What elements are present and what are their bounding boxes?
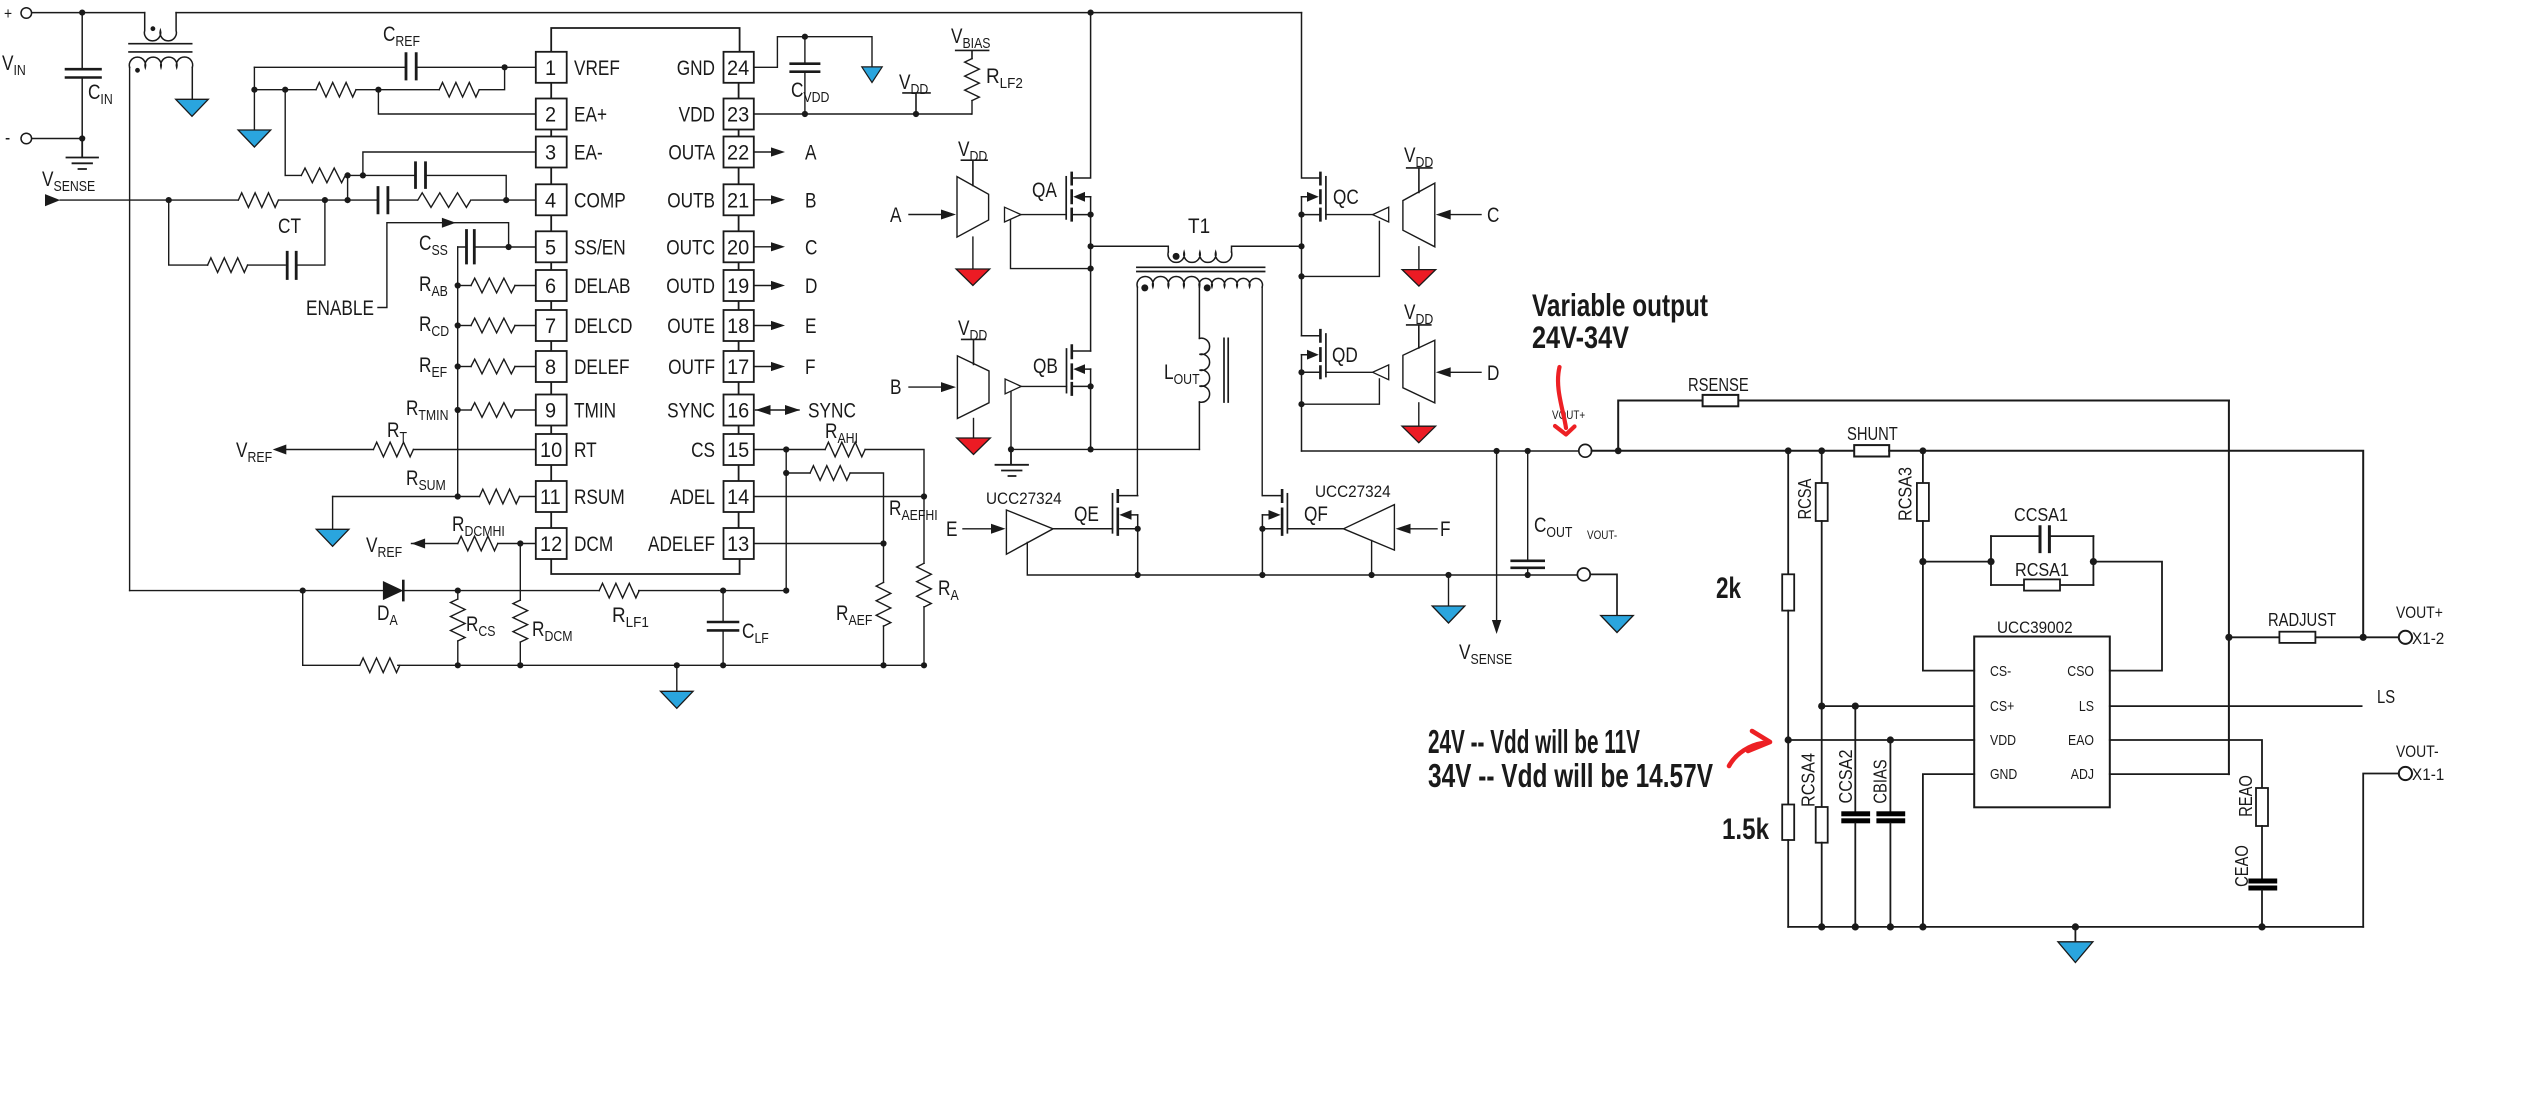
wire D input arrow xyxy=(1451,371,1481,373)
svg-text:VDD: VDD xyxy=(679,104,715,127)
node rail gnd stem right xyxy=(1445,572,1451,578)
wire driver A return xyxy=(1011,220,1091,269)
node CCSA1 right xyxy=(2090,558,2097,565)
capacitor CCSA2 xyxy=(1854,706,1856,811)
node output rail COUT xyxy=(1525,448,1531,454)
ground red driver C xyxy=(1418,247,1420,270)
wire CS filter line xyxy=(130,590,787,592)
node rail RDCM xyxy=(517,662,523,668)
wire VOUT- return xyxy=(2363,774,2399,927)
wire ENABLE net xyxy=(378,223,509,308)
phase dot choke bottom xyxy=(135,68,140,73)
wire driver C return xyxy=(1302,222,1380,277)
transformer T1 secondary xyxy=(1137,277,1262,287)
node rail CBIAS xyxy=(1887,923,1894,930)
svg-text:E: E xyxy=(946,518,958,541)
node driver C return xyxy=(1298,273,1304,279)
svg-text:ADJ: ADJ xyxy=(2071,766,2094,783)
svg-text:ENABLE: ENABLE xyxy=(306,297,374,320)
wire B input arrow xyxy=(909,386,941,388)
svg-text:OUTE: OUTE xyxy=(667,315,715,338)
svg-text:QD: QD xyxy=(1332,344,1358,367)
node comp line CT left xyxy=(166,197,172,203)
pin 1 VREF xyxy=(536,52,567,83)
node pin1 branch xyxy=(502,64,508,70)
wire driver D return xyxy=(1302,379,1380,404)
wire bottom ground rail left xyxy=(303,591,924,666)
wire ADELEF pin13 xyxy=(754,543,884,545)
ground blue EA+ divider xyxy=(238,130,271,147)
VSENSE input arrow xyxy=(45,194,60,206)
transformer input choke winding bottom xyxy=(129,57,192,99)
svg-text:QA: QA xyxy=(1032,179,1057,202)
svg-text:17: 17 xyxy=(727,356,749,379)
capacitor CREF xyxy=(254,54,504,79)
node rail ground stem xyxy=(2072,923,2079,930)
svg-text:6: 6 xyxy=(545,275,556,298)
svg-text:RSUM: RSUM xyxy=(574,486,625,509)
resistor EA+ divider left xyxy=(254,89,316,91)
node comp line CT right xyxy=(322,197,328,203)
transistor QB xyxy=(1067,346,1091,450)
node rail RCSA4 xyxy=(1818,923,1825,930)
wire driver E return xyxy=(1027,543,1578,576)
node driver F rail xyxy=(1369,572,1375,578)
node RCSA3 CCSA1 tap xyxy=(1919,558,1926,565)
pin 8 DELEF xyxy=(536,351,567,382)
wire OUTC arrow xyxy=(754,246,771,248)
wire minus terminal xyxy=(32,138,82,140)
resistor RDCM xyxy=(519,544,521,601)
wire comp junction vertical xyxy=(347,175,349,200)
svg-text:SS/EN: SS/EN xyxy=(574,236,626,259)
ground red driver D xyxy=(1418,403,1420,426)
node CLF top xyxy=(720,588,726,594)
svg-text:10: 10 xyxy=(540,439,562,462)
svg-text:OUTF: OUTF xyxy=(668,356,715,379)
svg-text:B: B xyxy=(805,189,817,212)
pin 5 SS/EN xyxy=(536,231,567,262)
pin 4 COMP xyxy=(536,184,567,215)
svg-text:RADJUST: RADJUST xyxy=(2268,610,2336,630)
ground blue RSUM xyxy=(316,529,349,546)
resistor EA- input xyxy=(285,174,301,176)
resistor RLF2 xyxy=(965,59,980,101)
svg-text:OUTC: OUTC xyxy=(666,236,715,259)
node output rail VSENSE xyxy=(1494,448,1500,454)
wire pin23 VDD rail xyxy=(754,113,972,115)
svg-text:20: 20 xyxy=(727,236,749,259)
wire CREF left leg down xyxy=(253,67,255,89)
svg-text:CT: CT xyxy=(278,215,301,238)
wire OUTF arrow xyxy=(754,366,771,368)
node rail COUT bottom xyxy=(1525,572,1531,578)
svg-text:SYNC: SYNC xyxy=(808,400,856,423)
node CS pin filter xyxy=(783,446,789,452)
capacitor CCSA1 parallel loop xyxy=(1991,527,2093,585)
svg-text:VDD: VDD xyxy=(1990,732,2016,749)
wire A input arrow xyxy=(909,214,941,216)
terminal VOUT+ connector xyxy=(1579,444,1592,457)
driver A UCC27324 half xyxy=(957,177,989,238)
node comp line junction xyxy=(345,197,351,203)
svg-text:SHUNT: SHUNT xyxy=(1847,424,1898,444)
wire CS+ line xyxy=(1822,705,1975,707)
node comp pin node xyxy=(503,197,509,203)
svg-text:CSO: CSO xyxy=(2067,663,2094,680)
node VDD junction xyxy=(1785,736,1792,743)
VSENSE line to COMP xyxy=(60,199,536,201)
resistor 1.5k xyxy=(1787,740,1789,805)
resistor RDCMHI xyxy=(412,543,458,545)
node driver A return xyxy=(1088,266,1094,272)
svg-text:CS: CS xyxy=(691,439,715,462)
terminal VOUT+ X1-2 xyxy=(2399,631,2412,644)
node EA- comp junction xyxy=(345,172,351,178)
svg-text:24V-34V: 24V-34V xyxy=(1532,319,1629,355)
ground red driver B xyxy=(973,419,975,439)
node CS filter corner xyxy=(783,588,789,594)
node EA+ divider left xyxy=(251,87,257,93)
svg-text:UCC27324: UCC27324 xyxy=(1315,482,1391,501)
node VOUT+ rail drop xyxy=(2360,634,2367,641)
wire delay resistor rail xyxy=(457,247,459,497)
svg-text:COMP: COMP xyxy=(574,189,626,212)
node QC source xyxy=(1298,212,1304,218)
pin 3 EA- xyxy=(536,137,567,168)
svg-text:16: 16 xyxy=(727,400,749,423)
wire CS- line xyxy=(1923,670,1974,672)
pin 19 OUTD xyxy=(724,270,754,301)
svg-text:D: D xyxy=(805,275,817,298)
node QB source xyxy=(1088,383,1094,389)
wire OUTE arrow xyxy=(754,325,771,327)
driver D UCC27324 half xyxy=(1403,340,1435,403)
wire E input arrow xyxy=(963,528,991,530)
pin 16 SYNC xyxy=(724,395,754,426)
resistor RCSA3 xyxy=(1922,451,1924,483)
svg-text:2: 2 xyxy=(545,104,556,127)
pin 24 GND xyxy=(724,52,754,83)
node ADEL RA xyxy=(921,493,927,499)
node RAEFHI left xyxy=(783,470,789,476)
svg-text:1: 1 xyxy=(545,57,556,80)
resistor VSENSE series xyxy=(238,193,278,207)
wire secondary left leg xyxy=(1136,287,1138,496)
pin 18 OUTE xyxy=(724,310,754,341)
node RADJUST left xyxy=(2225,634,2232,641)
svg-text:VOUT-: VOUT- xyxy=(2396,742,2439,761)
resistor RCSA xyxy=(1821,451,1823,483)
node CVDD bottom xyxy=(802,111,808,117)
svg-text:RSENSE: RSENSE xyxy=(1688,375,1749,395)
ground blue bottom rail xyxy=(661,691,694,708)
node rail 2k tap xyxy=(1785,447,1792,454)
wire EA- tap down xyxy=(284,90,286,176)
node rail CCSA2 xyxy=(1852,923,1859,930)
svg-text:RCSA4: RCSA4 xyxy=(1798,753,1818,807)
driver B UCC27324 half xyxy=(957,356,989,419)
wire ADJ riser xyxy=(2228,401,2230,775)
svg-text:Variable output: Variable output xyxy=(1532,287,1708,323)
buffer B output xyxy=(1005,379,1021,394)
svg-text:CS-: CS- xyxy=(1990,663,2011,680)
terminal + (VIN positive input) xyxy=(21,8,32,19)
arrow VREF left pin10 xyxy=(273,445,287,455)
wire pin24 GND to ground xyxy=(754,37,872,68)
wire choke left leg down to CS diode line xyxy=(129,68,131,591)
pin 9 TMIN xyxy=(536,395,567,426)
capacitor CLF xyxy=(708,591,738,666)
terminal VOUT- X1-1 xyxy=(2399,767,2412,780)
svg-text:15: 15 xyxy=(727,439,749,462)
svg-text:2k: 2k xyxy=(1716,572,1741,605)
node EA- tap xyxy=(282,87,288,93)
node rail RA xyxy=(921,662,927,668)
svg-text:RCSA: RCSA xyxy=(1795,479,1815,520)
svg-text:DELCD: DELCD xyxy=(574,315,632,338)
power symbol VBIAS xyxy=(956,50,989,58)
resistor RA xyxy=(923,497,925,564)
resistor comp series xyxy=(418,193,472,207)
phase dot T1 secondary right xyxy=(1204,284,1211,291)
node EA- pin tap xyxy=(360,172,366,178)
wire ground stem loadshare xyxy=(2074,927,2076,942)
diode DA xyxy=(383,581,403,600)
wire QD leg to output rail xyxy=(1302,450,1497,452)
svg-text:EA-: EA- xyxy=(574,142,603,165)
svg-text:34V -- Vdd will be 14.57V: 34V -- Vdd will be 14.57V xyxy=(1428,757,1713,794)
transistor QD xyxy=(1302,330,1326,451)
transformer input choke winding top xyxy=(144,13,176,41)
svg-text:23: 23 xyxy=(727,104,749,127)
wire CSO link xyxy=(2093,562,2162,671)
svg-text:EA+: EA+ xyxy=(574,104,607,127)
node EAO rail xyxy=(2258,923,2265,930)
svg-text:3: 3 xyxy=(545,142,556,165)
wire rail right of VOUT+ xyxy=(1592,450,1855,452)
wire CCSA1 left link xyxy=(1923,561,1991,563)
node QA source xyxy=(1088,212,1094,218)
svg-text:CCSA2: CCSA2 xyxy=(1836,750,1856,804)
svg-text:24: 24 xyxy=(727,57,750,80)
capacitor COUT xyxy=(1512,451,1544,575)
node QE rail xyxy=(1135,572,1141,578)
svg-text:F: F xyxy=(1440,518,1451,541)
svg-text:24V -- Vdd will be 11V: 24V -- Vdd will be 11V xyxy=(1428,723,1640,760)
svg-text:UCC27324: UCC27324 xyxy=(986,489,1062,508)
wire QB leg to LOUT return xyxy=(1011,448,1199,450)
red arrow to VOUT+ xyxy=(1555,367,1575,435)
svg-text:18: 18 xyxy=(727,315,749,338)
svg-text:LS: LS xyxy=(2377,687,2395,707)
node rail RCSA3 tap xyxy=(1920,447,1927,454)
phase dot choke top xyxy=(151,26,156,31)
svg-text:VREF: VREF xyxy=(574,57,620,80)
resistor RAB xyxy=(455,282,461,288)
svg-text:CEAO: CEAO xyxy=(2232,845,2252,887)
transistor QC xyxy=(1302,13,1326,336)
svg-text:13: 13 xyxy=(727,533,749,556)
resistor ground rail unnamed xyxy=(360,658,400,673)
node CS+ CCSA2 xyxy=(1852,703,1859,710)
transistor QA xyxy=(1066,13,1090,351)
svg-text:D: D xyxy=(1487,362,1499,385)
pin 13 ADELEF xyxy=(724,528,754,559)
ground earth below CIN xyxy=(67,139,99,170)
resistor SHUNT xyxy=(1854,445,1889,456)
capacitor CIN xyxy=(66,13,101,139)
resistor RAHI xyxy=(754,449,825,451)
pin 21 OUTB xyxy=(724,184,754,215)
wire SYNC bidirectional arrow xyxy=(756,409,800,411)
power symbol VDD driver B xyxy=(962,339,985,364)
node VDD CBIAS xyxy=(1887,736,1894,743)
node CS+ RCSA xyxy=(1818,703,1825,710)
wire VDD line xyxy=(1788,739,1974,741)
pin 15 CS xyxy=(724,434,754,465)
wire EA- to pin3 xyxy=(363,152,536,175)
power symbol VDD driver A xyxy=(961,160,987,185)
capacitor CBIAS xyxy=(1889,740,1891,811)
svg-text:QE: QE xyxy=(1074,503,1099,526)
resistor RTMIN xyxy=(455,407,461,413)
pin 17 OUTF xyxy=(724,351,754,382)
wire output rail positive xyxy=(1497,450,1579,452)
capacitor CSS xyxy=(458,231,536,264)
svg-text:OUTA: OUTA xyxy=(668,142,715,165)
terminal VOUT- connector xyxy=(1577,568,1590,581)
svg-text:RCSA3: RCSA3 xyxy=(1895,467,1915,521)
node QE source xyxy=(1135,526,1141,532)
pin 23 VDD xyxy=(724,99,754,130)
wire OUTB arrow xyxy=(754,199,771,201)
node RCS top xyxy=(455,588,461,594)
pin 2 EA+ xyxy=(536,99,567,130)
driver E triangle xyxy=(1006,510,1053,554)
arrow ENABLE direction xyxy=(442,218,456,228)
svg-text:CCSA1: CCSA1 xyxy=(2014,505,2068,525)
ground earth driver B xyxy=(996,449,1029,476)
svg-text:11: 11 xyxy=(540,486,561,509)
svg-text:ADELEF: ADELEF xyxy=(648,533,715,556)
capacitor CEAO xyxy=(2248,879,2277,884)
resistor RCSA1 xyxy=(2024,579,2060,590)
inductor LOUT xyxy=(1199,287,1228,449)
ground blue output rail xyxy=(1432,606,1465,623)
node ADELEF RAEF xyxy=(880,540,886,546)
resistor RCSA4 xyxy=(1821,706,1823,807)
wire EA+ mid to pin2 xyxy=(378,90,535,114)
svg-text:DELEF: DELEF xyxy=(574,356,630,379)
pin 20 OUTC xyxy=(724,231,754,262)
svg-text:TMIN: TMIN xyxy=(574,400,616,423)
power symbol VDD xyxy=(903,93,930,114)
node rail RAEF xyxy=(880,662,886,668)
pin 11 RSUM xyxy=(536,481,567,512)
svg-text:A: A xyxy=(890,204,902,227)
svg-text:-: - xyxy=(5,128,10,149)
op-amp U2 UCC39002 body xyxy=(1974,637,2110,808)
wire LS net xyxy=(2110,705,2362,707)
transistor QE xyxy=(1053,490,1138,575)
node SS pin xyxy=(506,244,512,250)
node RSENSE riser xyxy=(1615,447,1622,454)
svg-text:1.5k: 1.5k xyxy=(1722,813,1769,846)
svg-text:RCSA1: RCSA1 xyxy=(2015,560,2069,580)
svg-text:DCM: DCM xyxy=(574,533,613,556)
resistor REAO xyxy=(2256,788,2268,826)
node DCM RDCM tap xyxy=(517,540,523,546)
svg-text:B: B xyxy=(890,376,902,399)
buffer C output xyxy=(1373,207,1389,222)
svg-text:LS: LS xyxy=(2079,698,2094,715)
wire VOUT- to ground xyxy=(1590,574,1617,615)
terminal - (VIN negative input) xyxy=(21,133,32,144)
node rail RCS xyxy=(455,662,461,668)
wire ADEL pin14 xyxy=(754,496,924,498)
svg-text:14: 14 xyxy=(727,486,750,509)
svg-text:QC: QC xyxy=(1333,186,1359,209)
wire driver F return xyxy=(1371,541,1373,576)
svg-text:F: F xyxy=(805,356,816,379)
node QF source xyxy=(1259,526,1265,532)
svg-text:CS+: CS+ xyxy=(1990,698,2014,715)
svg-text:SYNC: SYNC xyxy=(667,400,715,423)
node QF rail xyxy=(1259,572,1265,578)
wire load share bottom rail xyxy=(1788,926,2363,928)
svg-text:OUTD: OUTD xyxy=(666,275,715,298)
wire CS filter riser xyxy=(785,450,787,591)
arrow VREF pin12 xyxy=(412,539,426,549)
svg-text:UCC39002: UCC39002 xyxy=(1997,618,2073,637)
wire VSENSE output arrow xyxy=(1496,451,1498,620)
resistor RCD xyxy=(455,322,461,328)
wire RSUM to ground xyxy=(332,497,334,530)
wire secondary right leg xyxy=(1261,287,1263,496)
capacitor CT xyxy=(248,200,325,278)
wire F input arrow xyxy=(1411,528,1438,530)
svg-text:RT: RT xyxy=(574,439,597,462)
node driver D return xyxy=(1298,401,1304,407)
pin 10 RT xyxy=(536,434,567,465)
svg-text:QF: QF xyxy=(1304,503,1328,526)
wire ADJ net xyxy=(2110,773,2229,775)
svg-text:GND: GND xyxy=(1990,766,2017,783)
wire ground stem xyxy=(676,665,678,691)
svg-text:C: C xyxy=(1487,204,1499,227)
svg-text:CBIAS: CBIAS xyxy=(1870,759,1890,803)
resistor RAEFHI xyxy=(786,472,810,474)
choke core xyxy=(129,44,192,52)
node CIN minus xyxy=(79,135,85,141)
transistor QF xyxy=(1262,490,1343,575)
wire driver B return to ground xyxy=(1010,392,1012,449)
resistor RSENSE xyxy=(1618,401,2229,451)
buffer D output xyxy=(1373,365,1389,380)
resistor RAEF xyxy=(883,544,885,583)
wire OUTA arrow xyxy=(754,151,771,153)
ground blue loadshare xyxy=(2058,942,2093,963)
wire divider left to ground xyxy=(253,90,255,130)
svg-text:X1-2: X1-2 xyxy=(2412,629,2444,648)
svg-text:EAO: EAO xyxy=(2068,732,2094,749)
resistor 2k xyxy=(1787,451,1789,575)
wire EAO net xyxy=(2110,740,2262,788)
op-amp U1 UCC28950 controller body xyxy=(551,28,739,574)
wire gnd stem output xyxy=(1448,575,1450,606)
svg-text:E: E xyxy=(805,315,817,338)
